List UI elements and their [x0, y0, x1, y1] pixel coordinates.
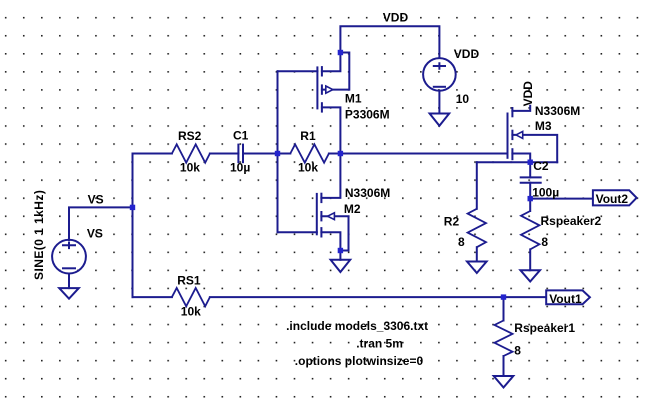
- svg-text:8: 8: [514, 344, 521, 358]
- svg-text:10k: 10k: [181, 305, 201, 319]
- svg-text:100µ: 100µ: [532, 186, 559, 200]
- svg-text:10µ: 10µ: [230, 161, 250, 175]
- svg-text:C2: C2: [533, 159, 549, 173]
- svg-text:10k: 10k: [298, 161, 318, 175]
- svg-text:10k: 10k: [180, 161, 200, 175]
- svg-text:SINE(0 1 1kHz): SINE(0 1 1kHz): [32, 190, 46, 280]
- svg-text:P3306M: P3306M: [345, 108, 390, 122]
- svg-text:VS: VS: [87, 227, 103, 241]
- svg-text:.include models_3306.txt: .include models_3306.txt: [286, 319, 428, 333]
- svg-text:VDD: VDD: [454, 47, 480, 61]
- svg-text:R1: R1: [300, 129, 316, 143]
- svg-text:.tran 5m: .tran 5m: [356, 337, 403, 351]
- svg-text:Vout1: Vout1: [549, 292, 582, 306]
- svg-text:.options plotwinsize=0: .options plotwinsize=0: [295, 354, 424, 368]
- svg-text:Vout2: Vout2: [596, 192, 629, 206]
- svg-text:8: 8: [458, 235, 465, 249]
- svg-text:M2: M2: [344, 202, 361, 216]
- svg-text:RS1: RS1: [177, 274, 201, 288]
- svg-text:Rspeaker1: Rspeaker1: [514, 321, 575, 335]
- svg-text:VDD: VDD: [521, 81, 535, 107]
- svg-text:M1: M1: [345, 92, 362, 106]
- svg-text:Rspeaker2: Rspeaker2: [541, 214, 602, 228]
- svg-text:C1: C1: [233, 129, 249, 143]
- svg-text:RS2: RS2: [178, 129, 202, 143]
- svg-text:M3: M3: [535, 119, 552, 133]
- svg-text:10: 10: [456, 92, 470, 106]
- svg-text:VS: VS: [88, 193, 104, 207]
- svg-text:8: 8: [541, 235, 548, 249]
- svg-text:N3306M: N3306M: [345, 186, 390, 200]
- svg-text:N3306M: N3306M: [535, 104, 580, 118]
- svg-text:VDD: VDD: [383, 11, 409, 25]
- svg-text:R2: R2: [444, 215, 460, 229]
